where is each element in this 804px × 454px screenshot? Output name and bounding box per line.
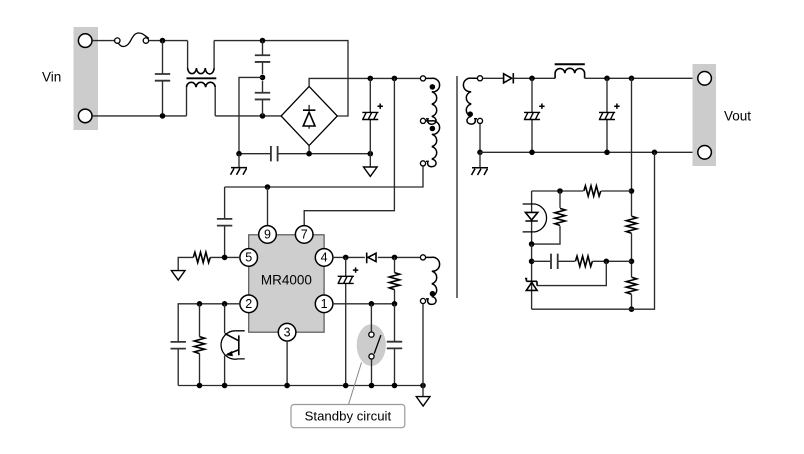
T1 terminal mid [420,118,425,123]
node: secondary gnd [477,150,483,156]
transformer T1 secondary winding [463,78,477,124]
ground rail [178,385,423,387]
isolation barrier [456,76,458,298]
resistor R8 fb mid [575,256,592,266]
diode D2 (aux rectifier, pointing left) [367,253,376,264]
capacitor C8 left [177,349,179,386]
resistor R4 divider upper [626,216,636,233]
Vout terminal bottom [698,146,712,160]
pin 5 [240,249,258,267]
resistor R3 [199,304,201,386]
fb top line [532,190,632,192]
Vin terminal bar [74,27,99,130]
op-amp U1 MR4000 body [249,235,324,332]
capacitor C6 VCC (electrolytic) [345,257,347,385]
node: rail pin3 [284,383,290,389]
svg-text:4: 4 [321,251,328,265]
pin 2 [240,295,258,313]
node: standby cap top [392,301,398,307]
X ground line [239,153,370,155]
capacitor C10 output (electrolytic) [606,78,608,152]
wire fuse to choke [149,40,188,42]
T1 terminal bottom [420,161,425,166]
node: C9 bottom [529,150,535,156]
capacitor C11 fb [532,260,575,262]
T1 terminal top [420,76,425,81]
node: divider top [629,76,635,82]
wire pin1 line [332,303,394,305]
switch SW1 [370,304,372,386]
svg-text:5: 5 [245,251,252,265]
wire pin9 riser [267,187,269,226]
node: snubber to pin5 line [222,255,228,261]
node: rail C6 [343,383,349,389]
resistor R1 at pin5 [193,252,210,262]
node: C9 top [529,76,535,82]
wire choke bottom to bridge [215,115,281,117]
capacitor C5 snubber [224,187,226,257]
wire Vin top to fuse [93,40,115,42]
polarity dot aux [430,291,436,297]
node: rail C8 [197,383,203,389]
capacitor C7 standby [394,304,396,386]
capacitor C9 output (electrolytic) [531,78,533,152]
node: fb mid [604,259,610,265]
resistor R5 divider lower [626,277,636,294]
leader line [349,363,362,405]
resistor R2 aux [394,257,396,303]
node: Y-cap bottom [260,113,266,119]
node: ground line left [236,151,242,157]
bridge inner diode [308,105,310,129]
pin 1 [315,295,333,313]
svg-text:1: 1 [321,297,328,311]
wire T1 bottom to snubber line [225,166,423,187]
node: rail switch [369,383,375,389]
svg-text:9: 9 [264,228,271,242]
node: rail C7 [392,383,398,389]
secondary terminal top [477,76,482,81]
node: LED cathode [529,241,535,247]
node: rail / bulk cap [368,76,374,82]
wire divider riser [631,78,633,309]
zener diode D5 [531,283,533,309]
pin 3 [278,323,296,341]
node: rail aux winding [420,383,426,389]
svg-text:3: 3 [284,325,291,339]
ground triangle 1 [369,154,371,167]
resistor R6 parallel LED [532,191,560,244]
node: bulk cap minus [368,151,374,157]
optocoupler LED D4 [531,191,533,244]
Vin terminal bottom [78,109,92,123]
node: Vin bottom / Cx1 [160,113,166,119]
node: fb top line right [629,188,635,194]
wire choke top to bridge riser [214,41,348,116]
fuse F1 [115,33,149,46]
secondary terminal bottom [477,118,482,123]
chassis ground 2 [479,152,481,168]
choke core [187,77,217,79]
transformer T1 primary winding [426,78,440,124]
standby ellipse highlight [357,324,386,366]
node: Vin top / Cx1 [160,38,166,44]
node: switch top [369,301,375,307]
node: Y-cap midpoint [260,75,266,81]
svg-text:Vin: Vin [42,70,61,85]
wire pin4 line [332,256,420,258]
bulk capacitor C4 [369,78,371,153]
Vout terminal top [698,72,712,86]
wire Y-cap midpoint to ground line [239,77,263,153]
wire secondary top to diode [483,77,503,79]
wire aux bottom to rail [422,304,424,386]
bridge + stub to rail [309,78,420,86]
node: Y-cap top [260,38,266,44]
aux terminal top [420,255,425,260]
aux terminal bottom [420,298,425,303]
wire LED cathode to zener [531,244,533,283]
bridge - stub [308,146,310,154]
T1 polarity dot 2 [430,126,436,132]
svg-text:7: 7 [301,228,308,242]
node: bridge minus [306,151,312,157]
pin 9 [259,226,277,244]
T1 polarity dot 1 [430,84,436,90]
output bottom line [480,151,697,153]
common-mode choke L1 bottom winding [187,87,216,116]
svg-text:Standby circuit: Standby circuit [305,409,392,424]
capacitor Cy2 [262,81,264,116]
node: R3 top [197,301,203,307]
L2 core bar [555,63,585,65]
node: fb R6 top [557,188,563,194]
node: fb rail right [629,306,635,312]
wire pin5 line [178,257,240,270]
svg-text:Vout: Vout [724,109,751,124]
wire Vin bottom [93,115,187,117]
common-mode choke L1 top winding [188,41,215,68]
standby label box [291,405,405,428]
node: aux resistor top [392,255,398,261]
transformer T1 aux winding [426,121,440,167]
diode D3 output rectifier [504,73,514,83]
transistor Q1 (photo) [224,304,226,386]
secondary polarity dot [467,111,473,117]
wire pin7 riser [304,78,394,226]
node: C10 top [604,76,610,82]
node: pin9 riser [265,184,271,190]
node: fb return [652,150,658,156]
chassis ground 1 [238,154,240,168]
ground triangle 3 [422,386,424,397]
capacitor Cy1 [262,41,264,75]
capacitor C3 on ground line [271,146,278,161]
fb return wire [532,152,655,309]
wire inductor to Vout [585,77,698,79]
ground triangle 2 [171,271,185,280]
wire diode to inductor [513,77,555,79]
node: divider mid [629,259,635,265]
wire secondary bottom drop [479,124,481,152]
node: C10 bottom [604,150,610,156]
node: VCC cap [343,255,349,261]
pin 4 [315,249,333,267]
node: rail / pin7 riser [392,76,398,82]
pin 7 [295,226,313,244]
svg-text:MR4000: MR4000 [261,273,312,288]
transformer T1 standby winding [426,257,440,304]
wire fb mid to zener cathode [537,261,606,285]
wire pin2 line [178,304,240,342]
capacitor Cx1 across input [162,41,164,116]
Vin terminal top [78,34,92,48]
resistor R7 fb top [584,186,601,196]
wire pin3 drop [286,341,288,386]
node: fb cap branch [529,259,535,265]
node: Q1 collector [222,301,228,307]
inductor L2 [555,68,585,78]
bridge rectifier D1 diamond [281,86,337,145]
svg-text:2: 2 [245,297,252,311]
Vout terminal bar [693,64,717,166]
node: rail Q1 [222,383,228,389]
